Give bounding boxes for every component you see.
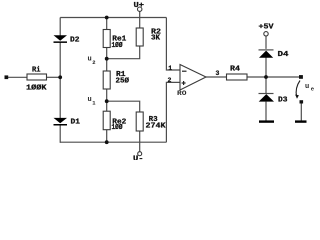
wire R2 to node u2 [107,46,140,59]
svg-text:25Ø: 25Ø [116,77,130,86]
output terminal top square [299,75,303,79]
svg-text:3K: 3K [151,35,161,43]
svg-text:D4: D4 [278,51,289,59]
svg-text:1ØØ: 1ØØ [112,123,124,132]
wire Re1 to node u2 [106,48,108,72]
terminal +5V [264,32,268,36]
resistor R3 [136,112,143,131]
wire output node to D3 cathode [265,77,267,93]
svg-text:1: 1 [168,65,172,72]
node A junction dot [58,75,62,79]
wire input to Ri [8,76,27,78]
svg-text:D1: D1 [71,119,81,127]
resistor R4 [227,74,248,80]
svg-text:U-: U- [133,155,144,160]
svg-text:D2: D2 [70,37,80,45]
non-inverting input plus sign [182,81,186,85]
diode D1 [54,118,68,126]
wire top rail to D2 anode [59,18,61,36]
wire D1 cathode to bottom rail [59,125,61,143]
svg-text:u: u [88,55,92,63]
node output junction dot [264,75,268,79]
svg-text:e: e [311,85,315,92]
output terminal bottom square [300,100,304,103]
svg-text:D3: D3 [278,96,288,104]
terminal U- [138,152,142,156]
node top rail Re1 junction dot [105,16,109,20]
resistor R2 [136,28,143,46]
node u2 junction dot [105,57,109,61]
svg-text:274K: 274K [146,122,167,130]
ground symbol left [259,120,274,122]
node u1 junction dot [105,99,109,103]
wire top rail [60,17,166,19]
svg-text:u: u [88,96,92,104]
svg-text:2: 2 [168,77,172,84]
wire Ri to node A [47,76,61,78]
node bottom rail Re2 junction dot [105,140,109,144]
wire D4 anode to output node [265,58,267,78]
wire U+ to R2 [139,12,141,29]
wire +5V terminal to D4 [265,36,267,49]
svg-text:1ØØ: 1ØØ [112,41,124,50]
wire non-inverting input pin 2 from bottom rail [166,82,180,142]
input terminal square [5,75,9,79]
ground symbol right [295,120,307,122]
wire Re2 to bottom rail [106,130,108,143]
diode D3 [259,94,275,102]
wire bottom rail [60,141,166,143]
svg-text:U+: U+ [134,2,145,10]
voltage arrow ue [296,81,300,97]
inverting input minus sign [182,70,187,72]
wire output terminal bottom to ground [300,103,302,120]
svg-text:RO: RO [177,90,187,97]
diode D4 [259,50,274,58]
wire op-amp output to R4 [206,76,227,78]
wire rail to Re1 [106,18,108,30]
resistor Re1 [103,30,110,48]
terminal U+ [138,7,142,11]
wire inverting input pin 1 from top rail [166,18,180,71]
wire node u1 to R3 [107,101,140,112]
svg-text:Ri: Ri [32,67,41,75]
wire D2 cathode to D1 anode (left branch) [59,43,61,119]
resistor R1 [103,71,110,89]
svg-text:+5V: +5V [259,24,275,32]
wire R1 to node u1 [106,89,108,111]
svg-text:R4: R4 [230,65,240,73]
wire D3 anode to ground [265,102,267,121]
resistor Re2 [103,111,110,130]
op-amp U1 triangle [180,65,206,91]
svg-text:3: 3 [216,70,220,77]
wire R3 to bottom rail and U- terminal [139,131,141,152]
svg-text:1ØØK: 1ØØK [26,84,47,93]
resistor Ri [27,74,47,80]
svg-text:2: 2 [92,59,95,66]
wire R4 to output terminal [247,76,300,78]
diode D2 [54,35,68,43]
svg-text:u: u [305,83,309,91]
svg-text:1: 1 [92,100,96,107]
